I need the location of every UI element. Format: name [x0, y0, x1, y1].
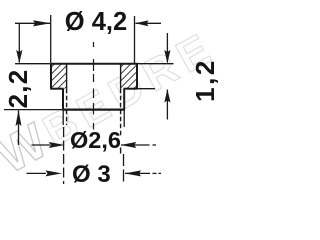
svg-text:1,2: 1,2	[190, 58, 220, 102]
svg-text:Ø 4,2: Ø 4,2	[65, 8, 127, 36]
svg-text:Ø 3: Ø 3	[72, 161, 111, 188]
svg-text:2,2: 2,2	[3, 69, 33, 109]
svg-text:Ø2,6: Ø2,6	[70, 127, 121, 153]
